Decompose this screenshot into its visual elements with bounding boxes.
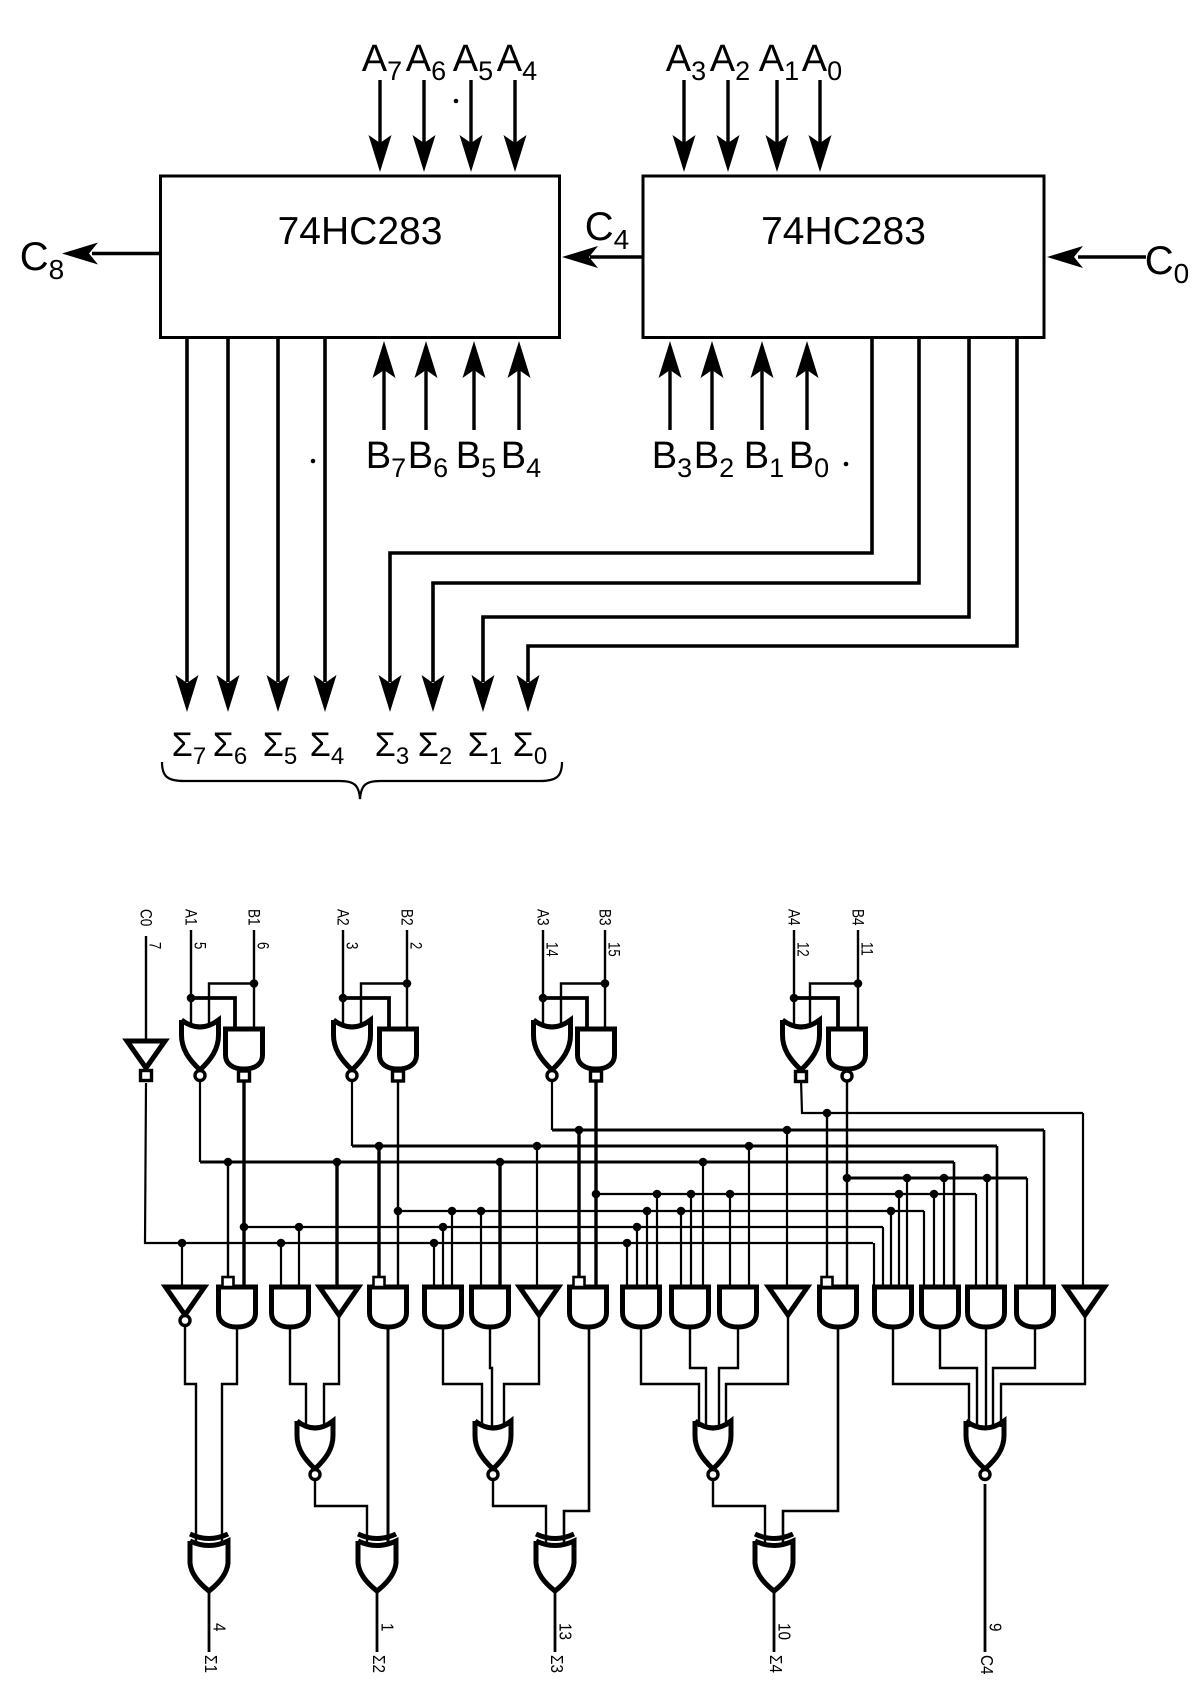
adder block diagram: right 74HC283 (U2) xyxy=(643,176,1044,338)
drop P1->and490 xyxy=(496,1158,505,1167)
drop G2->and940 xyxy=(923,1211,925,1287)
buffer triangle @1085 xyxy=(1066,1287,1105,1315)
drop P1->tri339 xyxy=(333,1158,342,1167)
and690 out to NOR C3 xyxy=(690,1327,706,1427)
AND gate @893 xyxy=(875,1287,912,1327)
tri788 out to NOR C3 xyxy=(726,1315,788,1427)
wire G3 rail xyxy=(594,1080,597,1287)
input wire B4 xyxy=(857,930,859,1032)
drop P2->and986 xyxy=(996,1146,999,1287)
NOR gate P1 xyxy=(182,1020,219,1070)
input A3 arrow xyxy=(682,80,685,145)
carry out C8 arrow xyxy=(92,252,161,255)
AND gate @290 xyxy=(272,1287,309,1327)
AND gate @641 xyxy=(623,1287,660,1327)
svg-text:A4: A4 xyxy=(784,909,803,926)
and738 out to NOR C3 xyxy=(719,1327,738,1427)
AND gate @838 xyxy=(820,1287,857,1327)
AND gate @738 xyxy=(720,1287,757,1327)
drop G3->and641 xyxy=(653,1190,662,1199)
and443 out to NOR C2 xyxy=(443,1327,482,1427)
sum output Σ3 routed wire+arrow xyxy=(390,338,872,683)
input B4 arrow xyxy=(517,370,520,430)
NOR gate P4 xyxy=(783,1020,820,1070)
output wire Σ1 pin 4 xyxy=(208,1591,211,1652)
NAND gate G4 xyxy=(829,1029,866,1069)
NAND gate G2 xyxy=(380,1029,417,1069)
input B3 arrow xyxy=(668,370,671,430)
NAND gate G3 xyxy=(578,1029,615,1069)
drop P2->and738 xyxy=(745,1142,754,1151)
NOR gate carry C3 (Σ4 group) xyxy=(695,1421,731,1469)
drop P4->and838 (inverting) xyxy=(823,1109,832,1118)
svg-text:C4: C4 xyxy=(977,1655,997,1675)
svg-text:3: 3 xyxy=(342,942,361,949)
drop G3->and738 xyxy=(726,1190,735,1199)
svg-text:11: 11 xyxy=(857,942,876,956)
input A1 arrow xyxy=(775,80,778,145)
drop G4->and893 xyxy=(903,1174,912,1183)
input B0 arrow xyxy=(805,370,808,430)
and940 out to NOR C4 xyxy=(940,1327,977,1427)
drop P1->and690 xyxy=(699,1158,708,1167)
sum output Σ6 wire+arrow xyxy=(226,338,230,683)
svg-text:5: 5 xyxy=(190,942,209,949)
svg-text:A3: A3 xyxy=(533,909,552,926)
AND gate @940 xyxy=(922,1287,959,1327)
output wire Σ4 pin 10 xyxy=(773,1591,776,1652)
carry in C0 arrow xyxy=(1078,255,1146,258)
drop P1->and237 (inverting) xyxy=(224,1158,233,1167)
and986 out to NOR C4 xyxy=(985,1327,987,1427)
carry-in inverter U-C0 xyxy=(145,936,147,1041)
NOR gate P3 xyxy=(534,1020,571,1070)
junction on A1 to NAND1 xyxy=(187,994,196,1003)
carry C4 arrow between stages xyxy=(590,255,643,258)
input B7 arrow xyxy=(382,370,385,430)
drop C0'->and641 xyxy=(623,1239,632,1248)
junction on A3 to NAND3 xyxy=(539,994,548,1003)
input wire A4 xyxy=(793,930,795,1024)
input A6 arrow xyxy=(422,80,425,145)
input wire B1 xyxy=(253,930,255,1032)
sum output Σ2 routed wire+arrow xyxy=(433,338,919,683)
and838 halfsum4 wire to XOR4 xyxy=(783,1327,838,1548)
NAND gate G1 xyxy=(226,1029,263,1069)
wire P4 rail xyxy=(801,1080,1083,1113)
drop G4->and986 xyxy=(983,1174,992,1183)
AND gate @690 xyxy=(672,1287,709,1327)
svg-text:B1: B1 xyxy=(244,909,263,926)
svg-text:7: 7 xyxy=(145,942,164,949)
NOR C1 out to XOR2 xyxy=(315,1480,367,1548)
XOR gate sum Σ3 xyxy=(536,1541,574,1591)
svg-text:A2: A2 xyxy=(333,909,352,926)
junction on A2 to NAND2 xyxy=(339,994,348,1003)
input B6 arrow xyxy=(424,370,427,430)
input A4 arrow xyxy=(513,80,516,145)
XOR gate sum Σ4 xyxy=(755,1541,793,1591)
drop P3->tri788 xyxy=(783,1126,792,1135)
svg-text:12: 12 xyxy=(793,942,812,957)
input A7 arrow xyxy=(378,80,381,145)
svg-text:10: 10 xyxy=(774,1623,794,1640)
XOR gate sum Σ2 xyxy=(358,1541,396,1591)
wire P3 rail xyxy=(551,1080,553,1130)
AND gate @237 xyxy=(219,1287,256,1327)
wire G1 rail xyxy=(242,1080,245,1287)
sum output Σ4 wire+arrow xyxy=(323,338,327,683)
AND gate @588 xyxy=(570,1287,607,1327)
input wire A3 xyxy=(542,930,544,1024)
drop P3->and1035 xyxy=(1043,1130,1046,1287)
NOR gate carry C4 output xyxy=(966,1421,1004,1469)
svg-text:C0: C0 xyxy=(136,909,155,926)
drop G2->and893 xyxy=(887,1207,896,1216)
svg-text:B2: B2 xyxy=(397,909,416,926)
input B2 arrow xyxy=(710,370,713,430)
input A0 arrow xyxy=(818,80,821,145)
drop C0'->inv1 xyxy=(178,1239,187,1248)
junction on A4 to NAND4 xyxy=(790,994,799,1003)
input A5 arrow xyxy=(469,80,472,145)
buffer triangle @339 xyxy=(320,1287,359,1315)
AND gate @443 xyxy=(425,1287,462,1327)
svg-text:4: 4 xyxy=(209,1623,229,1632)
and490 out to NOR C2 xyxy=(490,1327,492,1427)
inverter (C0 buffer) middle row xyxy=(166,1287,205,1315)
svg-text:Σ4: Σ4 xyxy=(766,1655,786,1673)
junction on B1 to NOR1 xyxy=(250,979,259,988)
sum output Σ1 routed wire+arrow xyxy=(483,338,969,683)
scan speck near A5 xyxy=(454,99,459,104)
junction on B4 to NOR4 xyxy=(854,979,863,988)
wire P1 rail xyxy=(199,1080,201,1162)
and290 out to NOR C1 xyxy=(290,1327,306,1427)
tri539 out to NOR C2 xyxy=(504,1315,539,1427)
drop G2->and490 xyxy=(477,1207,486,1216)
drop P1->and940 xyxy=(953,1162,956,1287)
and1035 out to NOR C4 xyxy=(993,1327,1035,1427)
scan speck before B7 xyxy=(311,459,316,464)
drop P2->tri539 xyxy=(533,1142,542,1151)
svg-text:9: 9 xyxy=(985,1623,1005,1632)
svg-text:15: 15 xyxy=(604,942,623,957)
tri339 out to NOR C1 xyxy=(324,1315,339,1427)
input wire A2 xyxy=(342,930,344,1024)
input B5 arrow xyxy=(472,370,475,430)
inv1 out to XOR1 xyxy=(185,1326,196,1548)
and588 halfsum3 wire to XOR3 xyxy=(564,1327,589,1548)
svg-text:B3: B3 xyxy=(595,909,614,926)
svg-text:14: 14 xyxy=(542,942,561,957)
and388 halfsum2 long wire to XOR2 xyxy=(387,1327,390,1544)
NOR gate carry C2 (Σ3 group) xyxy=(475,1421,511,1469)
drop G2->and641 xyxy=(643,1207,652,1216)
AND gate @490 xyxy=(472,1287,509,1327)
drop G2->and690 xyxy=(677,1207,686,1216)
svg-text:13: 13 xyxy=(555,1623,575,1640)
output wire Σ3 pin 13 xyxy=(554,1591,557,1652)
svg-text:2: 2 xyxy=(406,942,425,949)
drop P4->tri1085 xyxy=(1082,1113,1084,1287)
buffer triangle @788 xyxy=(769,1287,808,1315)
output wire Σ2 pin 1 xyxy=(376,1591,379,1652)
junction on B3 to NOR3 xyxy=(601,979,610,988)
sum output Σ0 routed wire+arrow xyxy=(528,338,1017,683)
NOR gate carry C1 (Σ2 group) xyxy=(297,1421,333,1469)
drop G1->and641 xyxy=(633,1223,642,1232)
drop G4->and1035 xyxy=(1026,1178,1028,1287)
svg-text:Σ3: Σ3 xyxy=(547,1655,567,1673)
AND gate @986 xyxy=(968,1287,1005,1327)
tri1085 out to NOR C4 xyxy=(1001,1315,1085,1427)
drop C0'->and443 xyxy=(430,1239,439,1248)
input wire B3 xyxy=(604,930,606,1032)
svg-text:1: 1 xyxy=(377,1623,397,1632)
NOR C3 out to XOR4 xyxy=(713,1480,765,1548)
scan speck after B0 xyxy=(844,462,849,467)
wire G4 rail xyxy=(846,1080,848,1287)
drop G1->and290 xyxy=(295,1223,304,1232)
curly brace grouping sum outputs xyxy=(162,762,562,799)
svg-text:Σ1: Σ1 xyxy=(201,1655,221,1673)
svg-text:74HC283: 74HC283 xyxy=(278,210,443,253)
input A2 arrow xyxy=(726,80,729,145)
AND gate @1035 xyxy=(1017,1287,1054,1327)
input wire B2 xyxy=(406,930,408,1032)
drop G1->and443 xyxy=(439,1223,448,1232)
drop G3->and690 xyxy=(687,1190,696,1199)
svg-text:Σ2: Σ2 xyxy=(369,1655,389,1673)
NOR gate P2 xyxy=(334,1020,371,1070)
drop G3->and986 xyxy=(975,1194,977,1287)
drop G3->and893 xyxy=(895,1190,904,1199)
wire C0' rail xyxy=(145,1083,873,1243)
input wire A1 xyxy=(190,930,192,1024)
AND gate @388 xyxy=(370,1287,407,1327)
NOR C2 out to XOR3 xyxy=(493,1480,546,1548)
sum output Σ7 wire+arrow xyxy=(185,338,189,683)
drop C0'->and290 xyxy=(277,1239,286,1248)
and641 out to NOR C3 xyxy=(641,1327,699,1427)
input B1 arrow xyxy=(760,370,763,430)
buffer triangle @539 xyxy=(520,1287,559,1315)
drop C0'->and893 xyxy=(873,1243,875,1287)
junction on B2 to NOR2 xyxy=(403,979,412,988)
drop G3->and940 xyxy=(930,1190,939,1199)
drop P2->and388 (inverting) xyxy=(375,1142,384,1151)
drop G4->and940 xyxy=(940,1174,949,1183)
XOR gate sum Σ1 xyxy=(190,1541,228,1591)
and237 out to XOR1 xyxy=(222,1327,237,1548)
drop G2->and443 xyxy=(448,1207,457,1216)
output wire C4 pin 9 xyxy=(984,1484,987,1652)
svg-text:74HC283: 74HC283 xyxy=(761,210,926,253)
wire P2 rail xyxy=(351,1080,353,1146)
and893 out to NOR C4 xyxy=(893,1327,969,1427)
svg-text:B4: B4 xyxy=(848,909,867,926)
sum output Σ5 wire+arrow xyxy=(276,338,280,683)
drop G1->and893 xyxy=(882,1227,884,1287)
svg-text:6: 6 xyxy=(253,942,272,949)
svg-text:A1: A1 xyxy=(181,909,200,926)
drop P3->and588 (inverting) xyxy=(575,1126,584,1135)
wire G2 rail xyxy=(397,1080,399,1287)
adder block diagram: left 74HC283 (U1) xyxy=(161,176,560,338)
